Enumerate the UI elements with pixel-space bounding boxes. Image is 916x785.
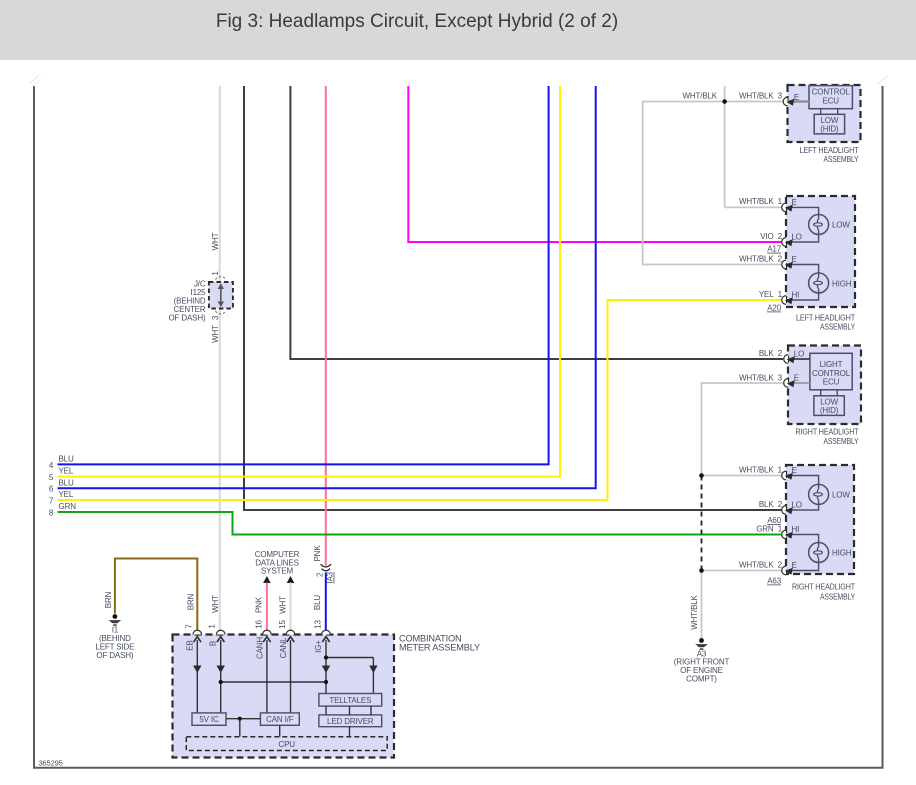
wire BLK vertical to right lamp LO xyxy=(244,86,783,510)
svg-text:A20: A20 xyxy=(767,304,781,313)
CAN I/F to CPU xyxy=(279,725,281,736)
wire BLU 4 xyxy=(58,86,549,464)
wire WHT/BLK top: junction to left ECU E and lamp E pins xyxy=(724,86,726,207)
svg-text:HI: HI xyxy=(792,525,800,534)
svg-text:365295: 365295 xyxy=(39,759,63,768)
meter pin 1 B line xyxy=(220,640,222,713)
svg-text:CONTROL: CONTROL xyxy=(812,87,851,96)
svg-text:ECU: ECU xyxy=(822,97,839,106)
svg-text:WHT/BLK 3: WHT/BLK 3 xyxy=(739,91,783,100)
svg-text:OF DASH): OF DASH) xyxy=(96,651,134,660)
link 5VIC-CANIF xyxy=(226,718,260,720)
svg-text:E: E xyxy=(794,93,799,102)
meter pins bumps xyxy=(193,630,202,634)
svg-text:E: E xyxy=(792,255,797,264)
wire VIO to left lamp LO xyxy=(408,86,783,242)
svg-text:5V IC: 5V IC xyxy=(199,715,219,724)
svg-text:E: E xyxy=(792,561,797,570)
svg-text:WHT/BLK: WHT/BLK xyxy=(690,594,699,629)
svg-text:B: B xyxy=(209,641,218,646)
svg-text:6: 6 xyxy=(49,485,54,494)
svg-text:E: E xyxy=(794,374,799,383)
LED DRIVER box xyxy=(319,715,382,727)
junction dot WHT/BLK xyxy=(722,99,727,104)
wire BLU 6 xyxy=(58,86,596,488)
svg-text:OF DASH): OF DASH) xyxy=(168,314,206,323)
svg-text:BLK 2: BLK 2 xyxy=(759,500,783,509)
connector IA3 xyxy=(321,564,331,567)
svg-text:2: 2 xyxy=(316,572,325,577)
svg-text:13: 13 xyxy=(314,620,323,629)
wires LO and E inside xyxy=(786,358,810,360)
svg-text:LOW: LOW xyxy=(832,221,850,230)
svg-text:BRN: BRN xyxy=(186,593,195,610)
svg-text:VIO 2: VIO 2 xyxy=(760,232,782,241)
svg-text:CANH: CANH xyxy=(255,637,264,659)
pin LO lamp L xyxy=(782,238,786,247)
svg-text:A60: A60 xyxy=(767,516,781,525)
svg-text:A17: A17 xyxy=(767,245,781,254)
wire E inside control ECU xyxy=(786,100,809,102)
LOW bulb (right) xyxy=(809,484,829,504)
bus line between B and IG+ xyxy=(221,681,326,683)
wire PNK vertical (to connector IA3) xyxy=(325,86,327,566)
wire GRN 8 to right lamp HI xyxy=(58,512,784,535)
svg-text:YEL: YEL xyxy=(59,490,74,499)
telltales to led driver links xyxy=(325,706,327,715)
pin LO lamp R xyxy=(782,506,786,515)
svg-text:WHT/BLK 2: WHT/BLK 2 xyxy=(739,254,783,263)
pin E right ECU xyxy=(784,379,788,388)
svg-text:WHT/BLK 1: WHT/BLK 1 xyxy=(739,197,783,206)
right headlight assembly lamp housing xyxy=(786,465,854,574)
svg-text:LEFT HEADLIGHT: LEFT HEADLIGHT xyxy=(800,146,859,155)
svg-text:LOW: LOW xyxy=(832,490,850,499)
svg-text:EB: EB xyxy=(185,640,194,650)
svg-text:HI: HI xyxy=(792,291,800,300)
svg-text:PNK: PNK xyxy=(254,596,263,613)
wire BLK vertical to right ECU LO xyxy=(290,86,783,359)
svg-text:WHT/BLK 1: WHT/BLK 1 xyxy=(739,466,783,475)
svg-text:WHT: WHT xyxy=(211,325,220,343)
frame break mark right xyxy=(878,76,887,84)
svg-text:LIGHT: LIGHT xyxy=(820,360,843,369)
svg-text:TELLTALES: TELLTALES xyxy=(329,696,371,705)
svg-text:ECU: ECU xyxy=(823,378,840,387)
svg-text:BLU: BLU xyxy=(59,478,74,487)
svg-text:15: 15 xyxy=(278,620,287,629)
svg-text:5: 5 xyxy=(49,473,54,482)
meter pin 13 IG+ line xyxy=(325,640,327,694)
left headlight assembly: control ECU section U-L xyxy=(788,85,861,142)
IG+ branch to right diode xyxy=(326,657,373,659)
meter pin 7 EB line xyxy=(196,640,198,713)
svg-text:ASSEMBLY: ASSEMBLY xyxy=(824,437,860,446)
svg-text:PNK: PNK xyxy=(313,545,322,562)
svg-text:LO: LO xyxy=(794,350,804,359)
svg-text:LEFT HEADLIGHT: LEFT HEADLIGHT xyxy=(796,313,855,322)
svg-text:3: 3 xyxy=(211,315,220,320)
control ECU box (left headlight) xyxy=(809,86,852,109)
HIGH bulb (right) xyxy=(809,543,829,563)
pin HI lamp R xyxy=(782,530,786,539)
junction connector J/C I25 xyxy=(209,282,233,309)
svg-text:GRN 1: GRN 1 xyxy=(756,525,782,534)
svg-text:YEL 1: YEL 1 xyxy=(759,290,783,299)
svg-text:CPU: CPU xyxy=(278,740,295,749)
svg-text:SYSTEM: SYSTEM xyxy=(261,567,293,576)
TELLTALES box xyxy=(319,694,382,707)
svg-text:16: 16 xyxy=(254,620,263,629)
pin E lamp R bottom xyxy=(782,566,786,575)
svg-text:CAN I/F: CAN I/F xyxy=(266,715,294,724)
svg-text:GRN: GRN xyxy=(59,502,77,511)
LED driver to CPU xyxy=(349,727,351,737)
arrow + wire PNK meter pin 16 xyxy=(263,576,271,583)
svg-text:LO: LO xyxy=(792,233,802,242)
svg-text:4: 4 xyxy=(49,461,54,470)
LOW (HID) box (left) xyxy=(814,114,844,134)
light control ECU box xyxy=(810,353,852,390)
frame break mark left xyxy=(29,76,38,84)
svg-text:Fig 3: Headlamps Circuit, Exce: Fig 3: Headlamps Circuit, Except Hybrid … xyxy=(216,11,618,32)
svg-text:LO: LO xyxy=(792,501,802,510)
svg-text:METER ASSEMBLY: METER ASSEMBLY xyxy=(399,642,480,652)
right headlight assembly: light control ECU section xyxy=(788,346,861,425)
LOW bulb (left) xyxy=(809,215,829,235)
pin E lamp L top xyxy=(782,203,786,212)
header bar xyxy=(0,0,916,60)
wire YEL 5 xyxy=(58,86,561,477)
5V IC box xyxy=(192,713,226,725)
svg-text:WHT/BLK: WHT/BLK xyxy=(682,91,717,100)
svg-text:WHT/BLK 3: WHT/BLK 3 xyxy=(739,373,783,382)
svg-text:HIGH: HIGH xyxy=(832,280,852,289)
pin E lamp L bottom xyxy=(782,260,786,269)
svg-text:ASSEMBLY: ASSEMBLY xyxy=(824,155,860,164)
ground A3 xyxy=(699,638,704,643)
svg-text:CANL: CANL xyxy=(279,637,288,658)
svg-text:ASSEMBLY: ASSEMBLY xyxy=(820,323,856,332)
pin E lamp R top xyxy=(782,471,786,480)
LOW (HID) box (right) xyxy=(814,396,844,416)
svg-text:WHT: WHT xyxy=(278,596,287,614)
wire YEL 7 to left lamp HI xyxy=(58,300,784,500)
pin HI lamp L xyxy=(782,296,786,305)
svg-text:LED DRIVER: LED DRIVER xyxy=(327,717,374,726)
svg-text:RIGHT HEADLIGHT: RIGHT HEADLIGHT xyxy=(796,427,859,436)
wire BRN from meter pin 7 to ground I1 xyxy=(115,559,197,632)
svg-text:WHT: WHT xyxy=(211,232,220,250)
svg-text:IA3: IA3 xyxy=(326,571,335,583)
svg-text:E: E xyxy=(792,198,797,207)
svg-text:WHT: WHT xyxy=(211,595,220,613)
svg-text:7: 7 xyxy=(184,624,193,629)
svg-text:IG+: IG+ xyxy=(314,640,323,653)
svg-text:HIGH: HIGH xyxy=(832,549,852,558)
svg-text:8: 8 xyxy=(49,508,54,517)
svg-text:BRN: BRN xyxy=(104,591,113,608)
shielded dashed segment xyxy=(701,476,703,571)
svg-text:7: 7 xyxy=(49,496,54,505)
wire WHT/BLK right ECU E down to right lamp E pins and A3 ground xyxy=(702,383,784,476)
J/C internal arrow xyxy=(220,287,222,305)
left headlight assembly lamp housing xyxy=(786,196,855,307)
svg-text:YEL: YEL xyxy=(59,467,74,476)
svg-text:1: 1 xyxy=(208,624,217,629)
HIGH bulb (left) xyxy=(809,273,829,293)
pin LO right ECU xyxy=(784,355,788,364)
svg-text:WHT/BLK 2: WHT/BLK 2 xyxy=(739,561,783,570)
wire BLU from IA3 to meter pin 13 xyxy=(325,573,327,632)
combination meter assembly box xyxy=(173,635,395,758)
svg-text:COMPT): COMPT) xyxy=(686,675,717,684)
svg-text:BLU: BLU xyxy=(59,455,74,464)
svg-text:E: E xyxy=(792,466,797,475)
pin E control ECU xyxy=(783,97,787,106)
svg-text:1: 1 xyxy=(211,271,220,276)
wire WHT vertical (to meter pin 1) xyxy=(219,86,221,631)
svg-text:BLK 2: BLK 2 xyxy=(759,349,783,358)
CAN I/F box xyxy=(260,713,299,725)
svg-text:(HID): (HID) xyxy=(820,406,839,415)
meter pin 16 CANH line xyxy=(266,640,268,713)
arrow + wire WHT meter pin 15 xyxy=(287,576,295,583)
meter pin 15 CANL line xyxy=(290,640,292,713)
svg-text:(HID): (HID) xyxy=(820,125,839,134)
CPU box xyxy=(186,737,387,751)
svg-text:A63: A63 xyxy=(767,577,781,586)
svg-text:ASSEMBLY: ASSEMBLY xyxy=(820,592,856,601)
junction dots xyxy=(699,473,704,478)
svg-text:BLU: BLU xyxy=(313,595,322,610)
ground I1 xyxy=(113,614,118,619)
svg-text:RIGHT HEADLIGHT: RIGHT HEADLIGHT xyxy=(792,582,855,591)
